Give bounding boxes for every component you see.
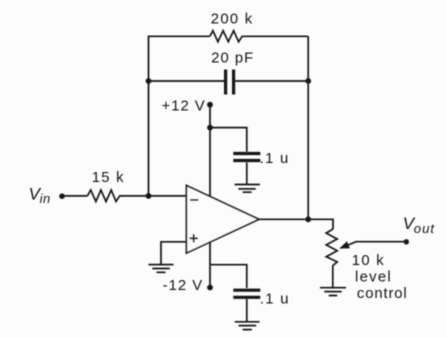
svg-text:control: control xyxy=(357,286,408,302)
svg-text:out: out xyxy=(414,221,436,236)
svg-text:10 k: 10 k xyxy=(352,253,385,269)
svg-text:20 pF: 20 pF xyxy=(211,50,254,66)
svg-text:.1 u: .1 u xyxy=(260,151,290,167)
svg-text:.1 u: .1 u xyxy=(260,292,290,308)
svg-text:15 k: 15 k xyxy=(92,170,125,186)
svg-text:200 k: 200 k xyxy=(211,11,254,27)
svg-text:level: level xyxy=(355,270,392,286)
svg-text:+12 V: +12 V xyxy=(162,98,206,114)
svg-text:-12 V: -12 V xyxy=(163,278,204,294)
svg-text:in: in xyxy=(40,191,51,206)
